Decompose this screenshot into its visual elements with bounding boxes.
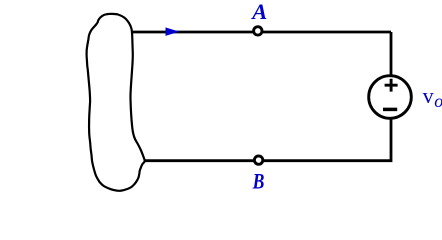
node B terminal (open circle)	[254, 156, 262, 164]
svg-text:v: v	[423, 83, 434, 108]
minus sign inside source	[383, 108, 397, 112]
svg-text:A: A	[250, 0, 267, 24]
wire: right vertical down to source top	[390, 32, 393, 78]
plus sign inside source	[385, 79, 398, 92]
svg-text:o: o	[434, 91, 442, 111]
voltage source U1 (circle)	[369, 76, 412, 119]
current arrow (blue) on top wire	[166, 28, 178, 35]
svg-text:B: B	[252, 169, 265, 193]
source network blob (hand-drawn closed shape)	[87, 14, 145, 191]
wire: top horizontal from blob to right corner	[131, 31, 391, 34]
wire: source bottom down and left along bottom	[145, 115, 391, 161]
node A terminal (open circle)	[254, 27, 262, 35]
